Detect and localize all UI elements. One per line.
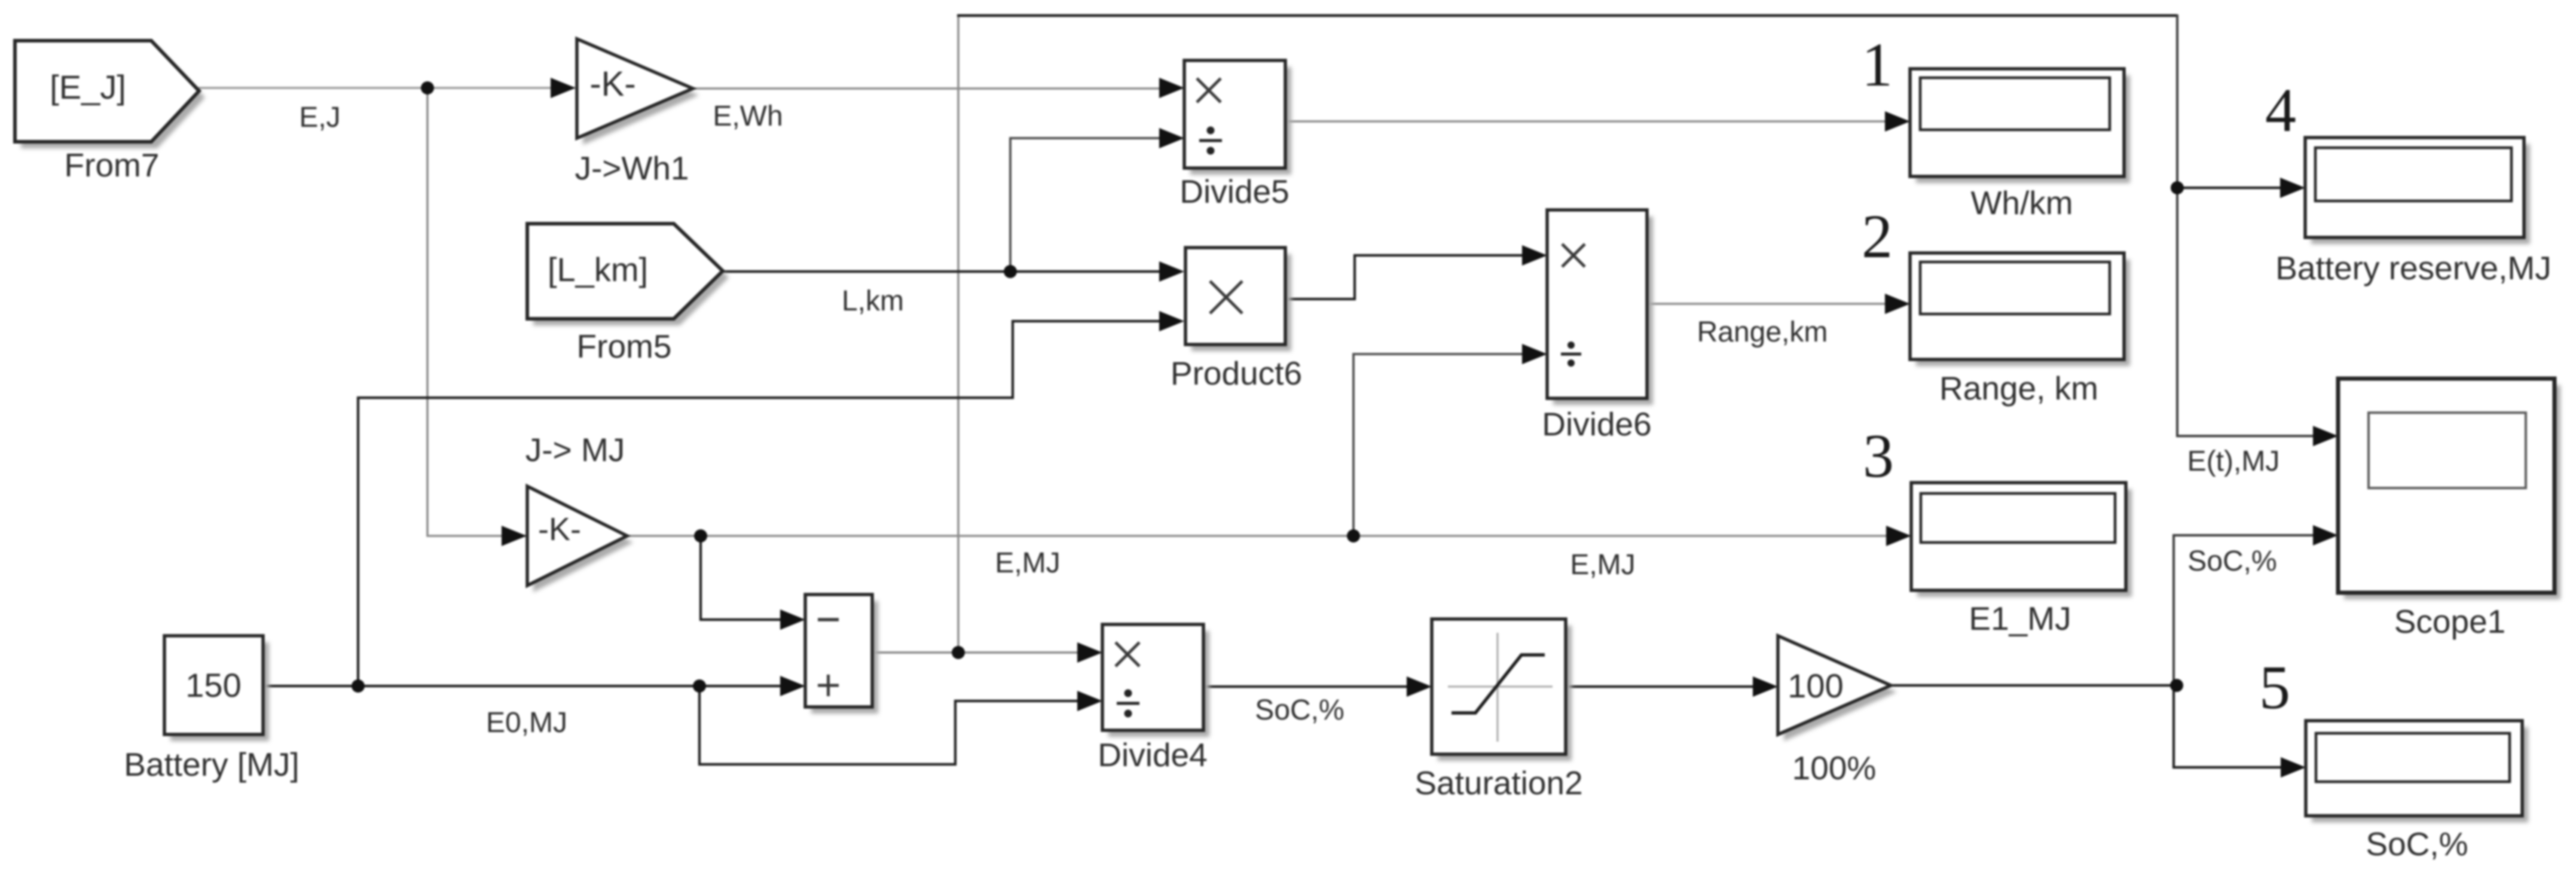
arrowhead into display 4 Battery reserve	[2280, 178, 2305, 198]
svg-text:5: 5	[2259, 653, 2290, 722]
arrowhead into J->Wh1 gain	[551, 78, 576, 98]
svg-text:4: 4	[2265, 76, 2296, 145]
svg-text:SoC,%: SoC,%	[2187, 545, 2276, 577]
wire SoC from Divide4 to Saturation2	[1202, 685, 1410, 688]
svg-text:From5: From5	[577, 328, 672, 365]
display 4 inner field	[2315, 148, 2511, 201]
svg-text:1: 1	[1862, 31, 1893, 99]
arrowhead into Divide6 X input	[1522, 245, 1547, 266]
arrowhead into Product6 input 2	[1159, 311, 1184, 331]
wire E0 branch up to Product6 input 2	[358, 321, 1162, 686]
node E,MJ branch to sum	[694, 529, 707, 542]
arrowhead into gain 100 input	[1753, 676, 1778, 697]
display block 1 Wh/km	[1916, 75, 2130, 183]
display block 5 SoC,%	[2312, 727, 2528, 822]
from block From7 [E_J]	[21, 47, 205, 148]
svg-text:Scope1: Scope1	[2394, 603, 2506, 640]
node E0 branch at x=599	[352, 679, 365, 693]
wire right rail down to Battery reserve junction and scope	[2177, 14, 2315, 436]
multiply symbol in Divide5	[1197, 78, 1221, 102]
svg-text:-K-: -K-	[538, 511, 581, 547]
wire top rail E(t),MJ	[957, 14, 2177, 17]
scope screen	[2369, 413, 2526, 488]
node L,km branch	[1004, 265, 1017, 278]
arrowhead into Divide6 divisor input	[1522, 344, 1547, 364]
wire E,MJ from J->MJ gain to E1_MJ display	[626, 535, 1889, 537]
gain J->MJ triangle	[533, 493, 633, 592]
svg-text:Divide4: Divide4	[1098, 736, 1207, 773]
arrowhead into Product6 input 1	[1159, 261, 1184, 282]
wire E,Wh from J->Wh1 to Divide5 X input	[692, 87, 1162, 90]
wire L,km branch up to Divide5 divisor input	[1010, 138, 1162, 272]
node E,J branch	[421, 81, 434, 94]
wire Product6 output to Divide6 X input	[1284, 255, 1524, 299]
wire SoC,% from gain 100 to junction	[1890, 684, 2174, 687]
gain 100 triangle	[1784, 642, 1897, 741]
wire L,km from From5 to Product6 input 1	[722, 270, 1162, 273]
wire SoC rail up to scope input 2	[2174, 535, 2315, 685]
svg-text:Divide6: Divide6	[1542, 406, 1651, 443]
display 2 inner field	[1920, 262, 2110, 314]
svg-text:E,MJ: E,MJ	[995, 547, 1060, 579]
saturation icon curve	[1452, 655, 1545, 713]
svg-text:Range,km: Range,km	[1697, 316, 1828, 348]
wire branch to Battery reserve display	[2177, 187, 2282, 189]
svg-text:Battery reserve,MJ: Battery reserve,MJ	[2275, 249, 2551, 286]
display 5 inner field	[2316, 733, 2510, 782]
divide block Divide5	[1190, 67, 1291, 175]
wire E(t) top feedback from sum output to top rail	[957, 16, 959, 653]
svg-text:100: 100	[1787, 667, 1843, 705]
display block 2 Range km	[1916, 260, 2130, 366]
multiply symbol in Divide6	[1562, 244, 1585, 267]
svg-text:[E_J]: [E_J]	[50, 68, 126, 106]
arrowhead into Scope1 input 2	[2313, 525, 2338, 545]
divide symbol in Divide4	[1117, 702, 1139, 705]
svg-text:Range, km: Range, km	[1939, 370, 2098, 407]
arrowhead into Scope1 input 1	[2313, 426, 2338, 446]
svg-text:Wh/km: Wh/km	[1970, 184, 2073, 221]
svg-text:150: 150	[185, 666, 241, 704]
divide symbol in Divide6	[1561, 353, 1581, 356]
svg-text:[L_km]: [L_km]	[548, 251, 648, 288]
arrowhead into J->MJ gain	[502, 526, 527, 546]
product block Product6	[1191, 254, 1291, 351]
arrowhead into display 3 E1_MJ	[1886, 526, 1911, 546]
svg-text:SoC,%: SoC,%	[2366, 825, 2468, 862]
multiply symbol in Divide4	[1116, 642, 1139, 666]
wire Wh/km from Divide5 to display 1	[1284, 120, 1887, 123]
svg-text:Saturation2: Saturation2	[1414, 764, 1582, 801]
svg-text:100%: 100%	[1792, 749, 1877, 786]
svg-text:Product6: Product6	[1171, 355, 1302, 392]
constant block 150	[170, 642, 269, 741]
scope block Scope1	[2344, 385, 2560, 599]
display 3 inner field	[1921, 493, 2115, 542]
arrowhead into Divide4 divisor input	[1077, 691, 1102, 711]
wire SoC rail down to SoC display	[2174, 685, 2284, 767]
svg-text:E(t),MJ: E(t),MJ	[2187, 446, 2280, 477]
svg-text:2: 2	[1862, 202, 1893, 271]
arrowhead into Divide5 X input	[1159, 78, 1184, 98]
svg-text:Divide5: Divide5	[1179, 173, 1289, 210]
arrowhead into Divide5 divisor input	[1159, 128, 1184, 148]
node sum output branch	[952, 646, 965, 659]
node E,MJ branch to Divide6	[1347, 529, 1360, 542]
svg-text:SoC,%: SoC,%	[1255, 694, 1344, 726]
node SoC branch	[2170, 679, 2183, 692]
arrowhead into sum minus input	[780, 609, 805, 630]
gain J->Wh1 triangle	[583, 45, 699, 145]
node Battery reserve branch	[2171, 181, 2184, 194]
wire sum output to Divide4 X input	[871, 651, 1080, 654]
svg-text:E,MJ: E,MJ	[1570, 549, 1635, 581]
svg-text:3: 3	[1863, 422, 1894, 490]
display block 4 Battery reserve,MJ	[2311, 144, 2530, 244]
arrowhead into display 5 SoC	[2281, 757, 2306, 778]
svg-text:From7: From7	[65, 147, 160, 184]
arrowhead into display 1 Wh/km	[1885, 111, 1910, 132]
wire Range,km from Divide6 to display 2	[1646, 303, 1887, 305]
divide block Divide6	[1553, 217, 1653, 405]
divide symbol in Divide5	[1199, 139, 1222, 142]
svg-text:E,Wh: E,Wh	[713, 100, 783, 132]
arrowhead into Saturation2 input	[1407, 676, 1432, 697]
display 1 inner field	[1920, 78, 2110, 130]
wire E,MJ branch up to Divide6 divisor input	[1353, 354, 1524, 536]
wire from Saturation2 to gain 100	[1564, 685, 1756, 688]
divide block Divide4	[1108, 631, 1209, 737]
arrowhead into Divide4 X input	[1077, 642, 1102, 663]
svg-text:J->Wh1: J->Wh1	[575, 150, 689, 187]
wire E0,MJ from Battery constant to sum plus input	[263, 685, 783, 687]
svg-text:J-> MJ: J-> MJ	[525, 431, 625, 468]
wire E,MJ branch down to sum minus input	[701, 536, 783, 620]
saturation block Saturation2	[1438, 626, 1572, 761]
svg-text:E0,MJ: E0,MJ	[486, 707, 567, 739]
saturation icon axes	[1448, 633, 1553, 742]
multiply symbol in Product6	[1210, 281, 1242, 313]
sum block	[811, 601, 878, 714]
svg-text:L,km: L,km	[842, 285, 904, 317]
from block From5 [L_km]	[533, 230, 729, 325]
plus sign in sum block	[818, 675, 839, 696]
node E0 branch at x=1170	[693, 679, 706, 693]
minus sign in sum block	[818, 618, 839, 621]
arrowhead into sum plus input	[780, 676, 805, 696]
display block 3 E1_MJ	[1917, 489, 2132, 597]
svg-text:-K-: -K-	[589, 65, 635, 103]
svg-text:E,J: E,J	[299, 102, 340, 133]
svg-text:Battery [MJ]: Battery [MJ]	[124, 746, 299, 783]
arrowhead into display 2 Range km	[1885, 294, 1910, 314]
wire E0 branch to Divide4 divisor input	[699, 686, 1080, 764]
wire E,J branch down to J->MJ gain	[427, 88, 525, 536]
svg-text:E1_MJ: E1_MJ	[1969, 600, 2071, 637]
wire E,J from From7 to J->Wh1 gain	[197, 87, 575, 89]
